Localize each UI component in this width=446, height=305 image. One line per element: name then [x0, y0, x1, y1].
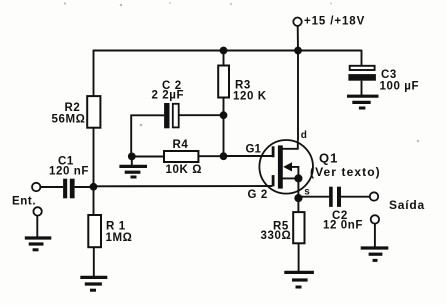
svg-text:100 µF: 100 µF	[380, 81, 420, 93]
svg-text:120 nF: 120 nF	[49, 166, 89, 178]
Q1 substrate arrow	[283, 162, 292, 171]
svg-text:Saída: Saída	[389, 198, 425, 212]
svg-text:R2: R2	[65, 102, 81, 114]
svg-text:C3: C3	[381, 69, 397, 81]
wire left vertical from rail	[93, 50, 95, 97]
resistor R3	[218, 66, 229, 98]
wire drain column	[297, 51, 299, 141]
wire R5 top	[297, 198, 299, 212]
ground R5	[284, 272, 314, 287]
resistor R2	[87, 96, 100, 128]
capacitor C2 output 120nF	[329, 187, 341, 207]
Q1 source lead	[283, 178, 299, 198]
capacitor C1	[63, 179, 75, 199]
svg-text:(Ver texto): (Ver texto)	[310, 165, 381, 179]
ground input	[25, 238, 52, 250]
label R3 120K	[233, 80, 267, 103]
node C2b/R4/ground	[128, 153, 136, 161]
svg-text:10K Ω: 10K Ω	[166, 164, 203, 176]
wire C2b left	[131, 115, 164, 156]
Q1 gate1 electrode	[272, 146, 275, 157]
wire R4 right to node	[198, 155, 223, 157]
resistor R4	[164, 151, 198, 162]
svg-text:Q1: Q1	[319, 151, 338, 166]
terminal input Ent	[32, 183, 63, 191]
terminal +V supply	[293, 18, 301, 51]
label R1 1M	[106, 221, 133, 245]
wire output cap to terminal	[341, 196, 370, 198]
resistor R1	[88, 215, 101, 247]
label C2 22uF	[152, 80, 185, 102]
wire node to R4 left	[132, 156, 164, 158]
node source	[294, 194, 302, 202]
ground R4/C2b	[119, 166, 147, 177]
transistor Q1 dual-gate MOSFET	[259, 140, 313, 198]
svg-text:330Ω: 330Ω	[261, 230, 292, 242]
wire C2b right to node	[179, 114, 224, 116]
wire source to output cap	[298, 196, 329, 198]
wire R3 bottom to G1 node	[223, 98, 225, 157]
wire R1 bottom	[93, 247, 95, 277]
node R4/G1/R3	[220, 152, 228, 160]
capacitor C3	[348, 66, 376, 96]
label R2 56M	[52, 102, 86, 126]
svg-text:d: d	[301, 130, 307, 141]
label C3 100uF	[380, 69, 420, 93]
wire G1	[224, 155, 273, 157]
wire R1 top	[93, 187, 95, 215]
svg-text:2 2µF: 2 2µF	[152, 90, 185, 102]
svg-text:G 2: G 2	[248, 189, 268, 201]
svg-text:R4: R4	[173, 139, 189, 151]
svg-text:56MΩ: 56MΩ	[52, 114, 86, 126]
label R5 330	[261, 220, 292, 242]
wire node to ground stub	[131, 156, 133, 166]
terminal output Saida	[370, 192, 378, 200]
ground output	[361, 248, 389, 260]
wire R3 top	[223, 51, 225, 67]
terminal output ground	[371, 215, 379, 248]
Q1 substrate-source dot	[294, 174, 302, 182]
wire R2 bottom to input node	[93, 128, 95, 187]
svg-text:1MΩ: 1MΩ	[106, 232, 133, 244]
ground C3	[347, 96, 379, 108]
svg-text:G1: G1	[246, 143, 262, 155]
label C1 120nF	[49, 156, 89, 178]
label R4 10K	[166, 139, 203, 176]
node C2b right	[220, 111, 228, 119]
scan specks (decorative)	[64, 2, 419, 142]
Q1 gate2 electrode	[272, 175, 275, 186]
capacitor C2 22uF	[164, 103, 179, 128]
node junction rail/supply	[294, 47, 302, 55]
resistor R5	[293, 212, 304, 243]
Q1 body circle	[259, 140, 313, 194]
wire R5 bottom	[298, 243, 300, 272]
svg-text:R 1: R 1	[106, 221, 126, 233]
svg-text:120 K: 120 K	[233, 91, 267, 103]
terminal input ground	[33, 207, 41, 238]
wire C3 drop	[361, 50, 363, 67]
node junction rail/R3	[220, 47, 228, 55]
svg-text:+15 /+18V: +15 /+18V	[304, 15, 365, 27]
wire top rail	[94, 50, 362, 52]
wire C1 right to node	[75, 186, 94, 188]
Q1 channel bar	[278, 145, 283, 188]
svg-text:Ent.: Ent.	[12, 195, 36, 207]
wire G2	[94, 185, 273, 187]
Q1 drain lead	[283, 140, 298, 149]
ground R1	[80, 277, 107, 290]
label C2 120nF	[323, 210, 363, 231]
node input/R2/R1/G2	[90, 183, 98, 191]
svg-text:12 0nF: 12 0nF	[323, 219, 363, 231]
